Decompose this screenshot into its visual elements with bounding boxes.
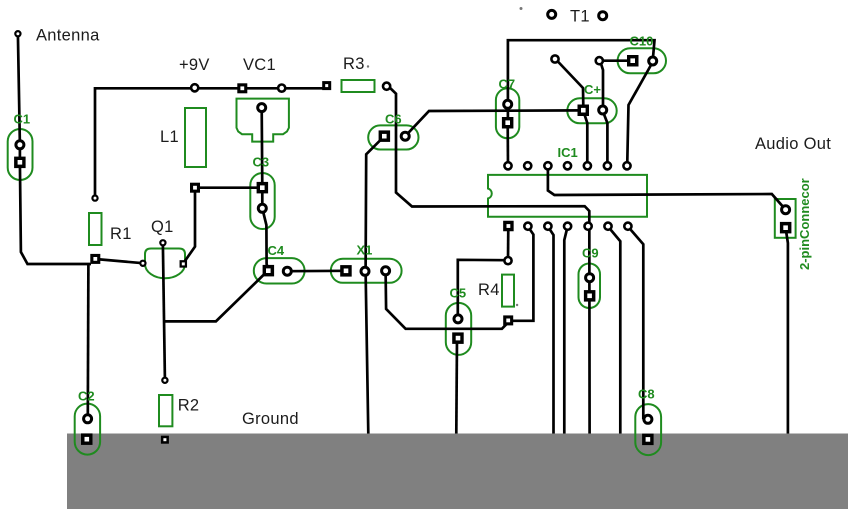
svg-text:Ground: Ground	[242, 410, 299, 428]
svg-text:C+: C+	[584, 82, 601, 97]
svg-text:+9V: +9V	[179, 56, 210, 74]
svg-text:C1: C1	[14, 112, 31, 127]
svg-text:R4: R4	[478, 281, 500, 299]
svg-text:L1: L1	[160, 128, 179, 146]
svg-text:R1: R1	[110, 225, 132, 243]
svg-text:C5: C5	[450, 286, 467, 301]
svg-text:Antenna: Antenna	[36, 27, 100, 45]
svg-text:C9: C9	[582, 246, 599, 261]
svg-text:IC1: IC1	[558, 145, 578, 160]
svg-text:2-pinConnecor: 2-pinConnecor	[797, 178, 812, 270]
svg-text:R3: R3	[343, 55, 365, 73]
svg-text:C3: C3	[253, 155, 270, 170]
svg-text:T1: T1	[570, 8, 590, 26]
svg-text:R2: R2	[178, 397, 200, 415]
svg-text:C8: C8	[638, 387, 655, 402]
svg-text:VC1: VC1	[243, 56, 276, 74]
svg-text:Q1: Q1	[151, 218, 174, 236]
svg-text:C2: C2	[78, 389, 95, 404]
svg-text:X1: X1	[357, 243, 373, 258]
svg-text:C6: C6	[385, 112, 402, 127]
svg-text:C7: C7	[499, 77, 516, 92]
svg-text:C10: C10	[630, 34, 654, 49]
svg-text:C4: C4	[268, 243, 285, 258]
svg-text:Audio Out: Audio Out	[755, 135, 831, 153]
